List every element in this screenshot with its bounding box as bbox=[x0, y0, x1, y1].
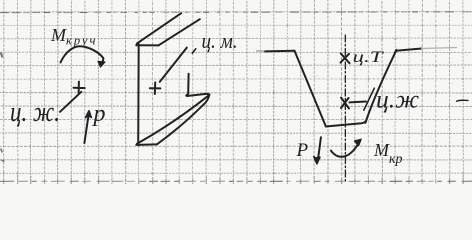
svg-text:ц. м.: ц. м. bbox=[202, 28, 238, 53]
svg-text:ц.ж: ц.ж bbox=[376, 87, 419, 114]
leader slash (right figure) bbox=[364, 88, 375, 110]
svg-text:кр: кр bbox=[389, 152, 403, 167]
center cross (middle channel) bbox=[150, 82, 161, 94]
channel far inner corner line bbox=[187, 94, 209, 96]
svg-text:М: М bbox=[50, 25, 67, 45]
channel web front edge (middle 3D channel) bbox=[137, 44, 140, 145]
force P down-arrow (right figure) bbox=[318, 137, 321, 160]
V-channel right flange faint tail bbox=[422, 48, 457, 49]
svg-text:р: р bbox=[92, 101, 106, 127]
channel top flange front edge bbox=[136, 44, 158, 46]
cross mark at center of gravity (right figure) bbox=[341, 54, 350, 64]
svg-text:Р: Р bbox=[296, 140, 309, 161]
V-channel left flange (right figure) bbox=[265, 50, 294, 53]
channel far web edge bbox=[186, 74, 188, 96]
leader line to ts.m label (middle) bbox=[160, 48, 187, 82]
torsion moment curved arrow (left figure) bbox=[61, 46, 104, 64]
torque M_kr curved arrow (right figure) bbox=[331, 142, 360, 157]
center-of-rigidity cross (left figure) bbox=[74, 82, 85, 94]
cross mark at center of rigidity (right figure) bbox=[341, 98, 349, 109]
channel top flange depth line 1 bbox=[137, 13, 181, 43]
svg-text:ц. ж.: ц. ж. bbox=[10, 96, 60, 128]
channel bottom flange front edge bbox=[136, 143, 157, 146]
V-channel right wall corner tick bbox=[395, 50, 397, 53]
channel top flange depth line 2 bbox=[159, 19, 200, 45]
stray pen dash at right edge bbox=[457, 100, 469, 101]
V-channel right wall bbox=[365, 51, 396, 123]
V-channel right flange bbox=[396, 49, 422, 51]
channel bottom flange upper depth line bbox=[137, 95, 209, 144]
V-channel left wall bbox=[295, 51, 326, 126]
V-channel bottom bbox=[326, 121, 366, 126]
leader line to ts.zh (right figure) bbox=[350, 101, 367, 104]
channel bottom flange far end edge bbox=[203, 95, 209, 105]
leader line to ts.zh label (left figure) bbox=[60, 92, 81, 112]
svg-text:ц.Т: ц.Т bbox=[353, 49, 385, 66]
channel bottom flange lower depth line bbox=[157, 105, 204, 145]
V-channel left flange faint lead-in (right figure) bbox=[257, 50, 266, 52]
leader tick near ts.m label bbox=[192, 49, 196, 54]
svg-text:М: М bbox=[373, 140, 390, 160]
force P up-arrow (left figure) bbox=[84, 114, 88, 144]
vertical dash-dot axis (right figure) bbox=[344, 35, 346, 182]
